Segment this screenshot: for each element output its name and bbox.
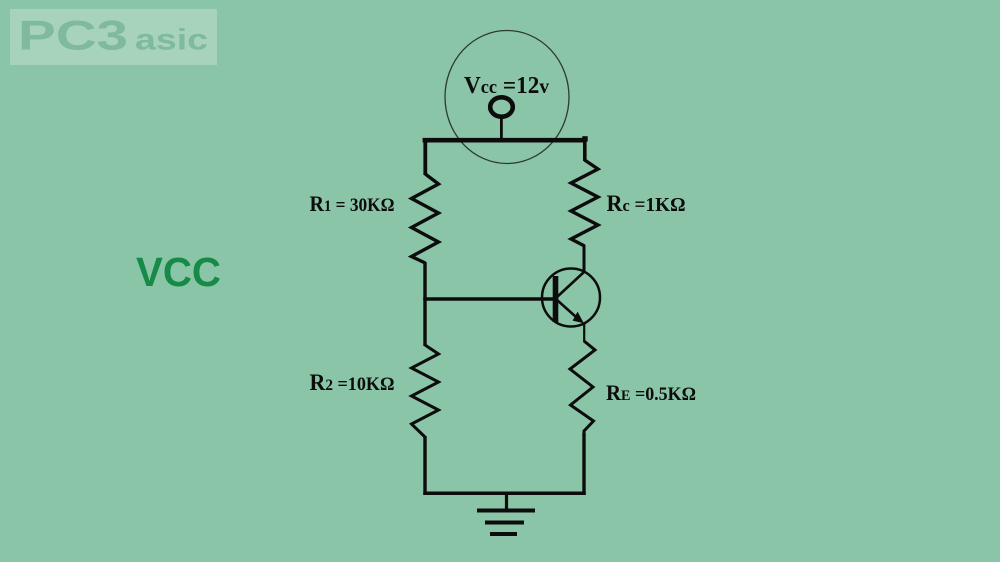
wire top rail bbox=[423, 138, 587, 143]
wire bottom rail bbox=[423, 492, 585, 496]
wire emitter top bbox=[583, 323, 585, 342]
logo watermark box bbox=[10, 9, 217, 65]
resistor R1 bbox=[412, 174, 439, 263]
wire left middle bbox=[423, 262, 426, 346]
wire terminal to rail bbox=[500, 116, 503, 140]
svg-text:Rc =1KΩ: Rc =1KΩ bbox=[607, 191, 686, 216]
wire left top bbox=[423, 138, 427, 175]
svg-text:asic: asic bbox=[135, 24, 208, 57]
junction dot top right corner bbox=[582, 136, 587, 141]
svg-text:PC3: PC3 bbox=[18, 12, 128, 59]
wire base bbox=[423, 297, 554, 301]
svg-text:R2 =10KΩ: R2 =10KΩ bbox=[310, 370, 395, 395]
wire right top bbox=[583, 137, 587, 161]
wire right bottom bbox=[582, 433, 585, 495]
transistor Q1 bbox=[542, 269, 600, 327]
svg-text:RE =0.5KΩ: RE =0.5KΩ bbox=[606, 380, 696, 405]
resistor Rc bbox=[571, 160, 598, 246]
ground bbox=[477, 493, 535, 534]
svg-text:VCC: VCC bbox=[136, 249, 221, 295]
wire left bottom bbox=[423, 436, 426, 495]
Vcc terminal bbox=[490, 97, 513, 116]
annotation circle around Vcc bbox=[445, 31, 569, 164]
resistor RE bbox=[570, 341, 595, 434]
svg-text:R1 = 30KΩ: R1 = 30KΩ bbox=[310, 191, 395, 216]
svg-text:Vcc =12v: Vcc =12v bbox=[464, 73, 549, 99]
wire collector top bbox=[583, 245, 586, 273]
resistor R2 bbox=[412, 345, 439, 437]
